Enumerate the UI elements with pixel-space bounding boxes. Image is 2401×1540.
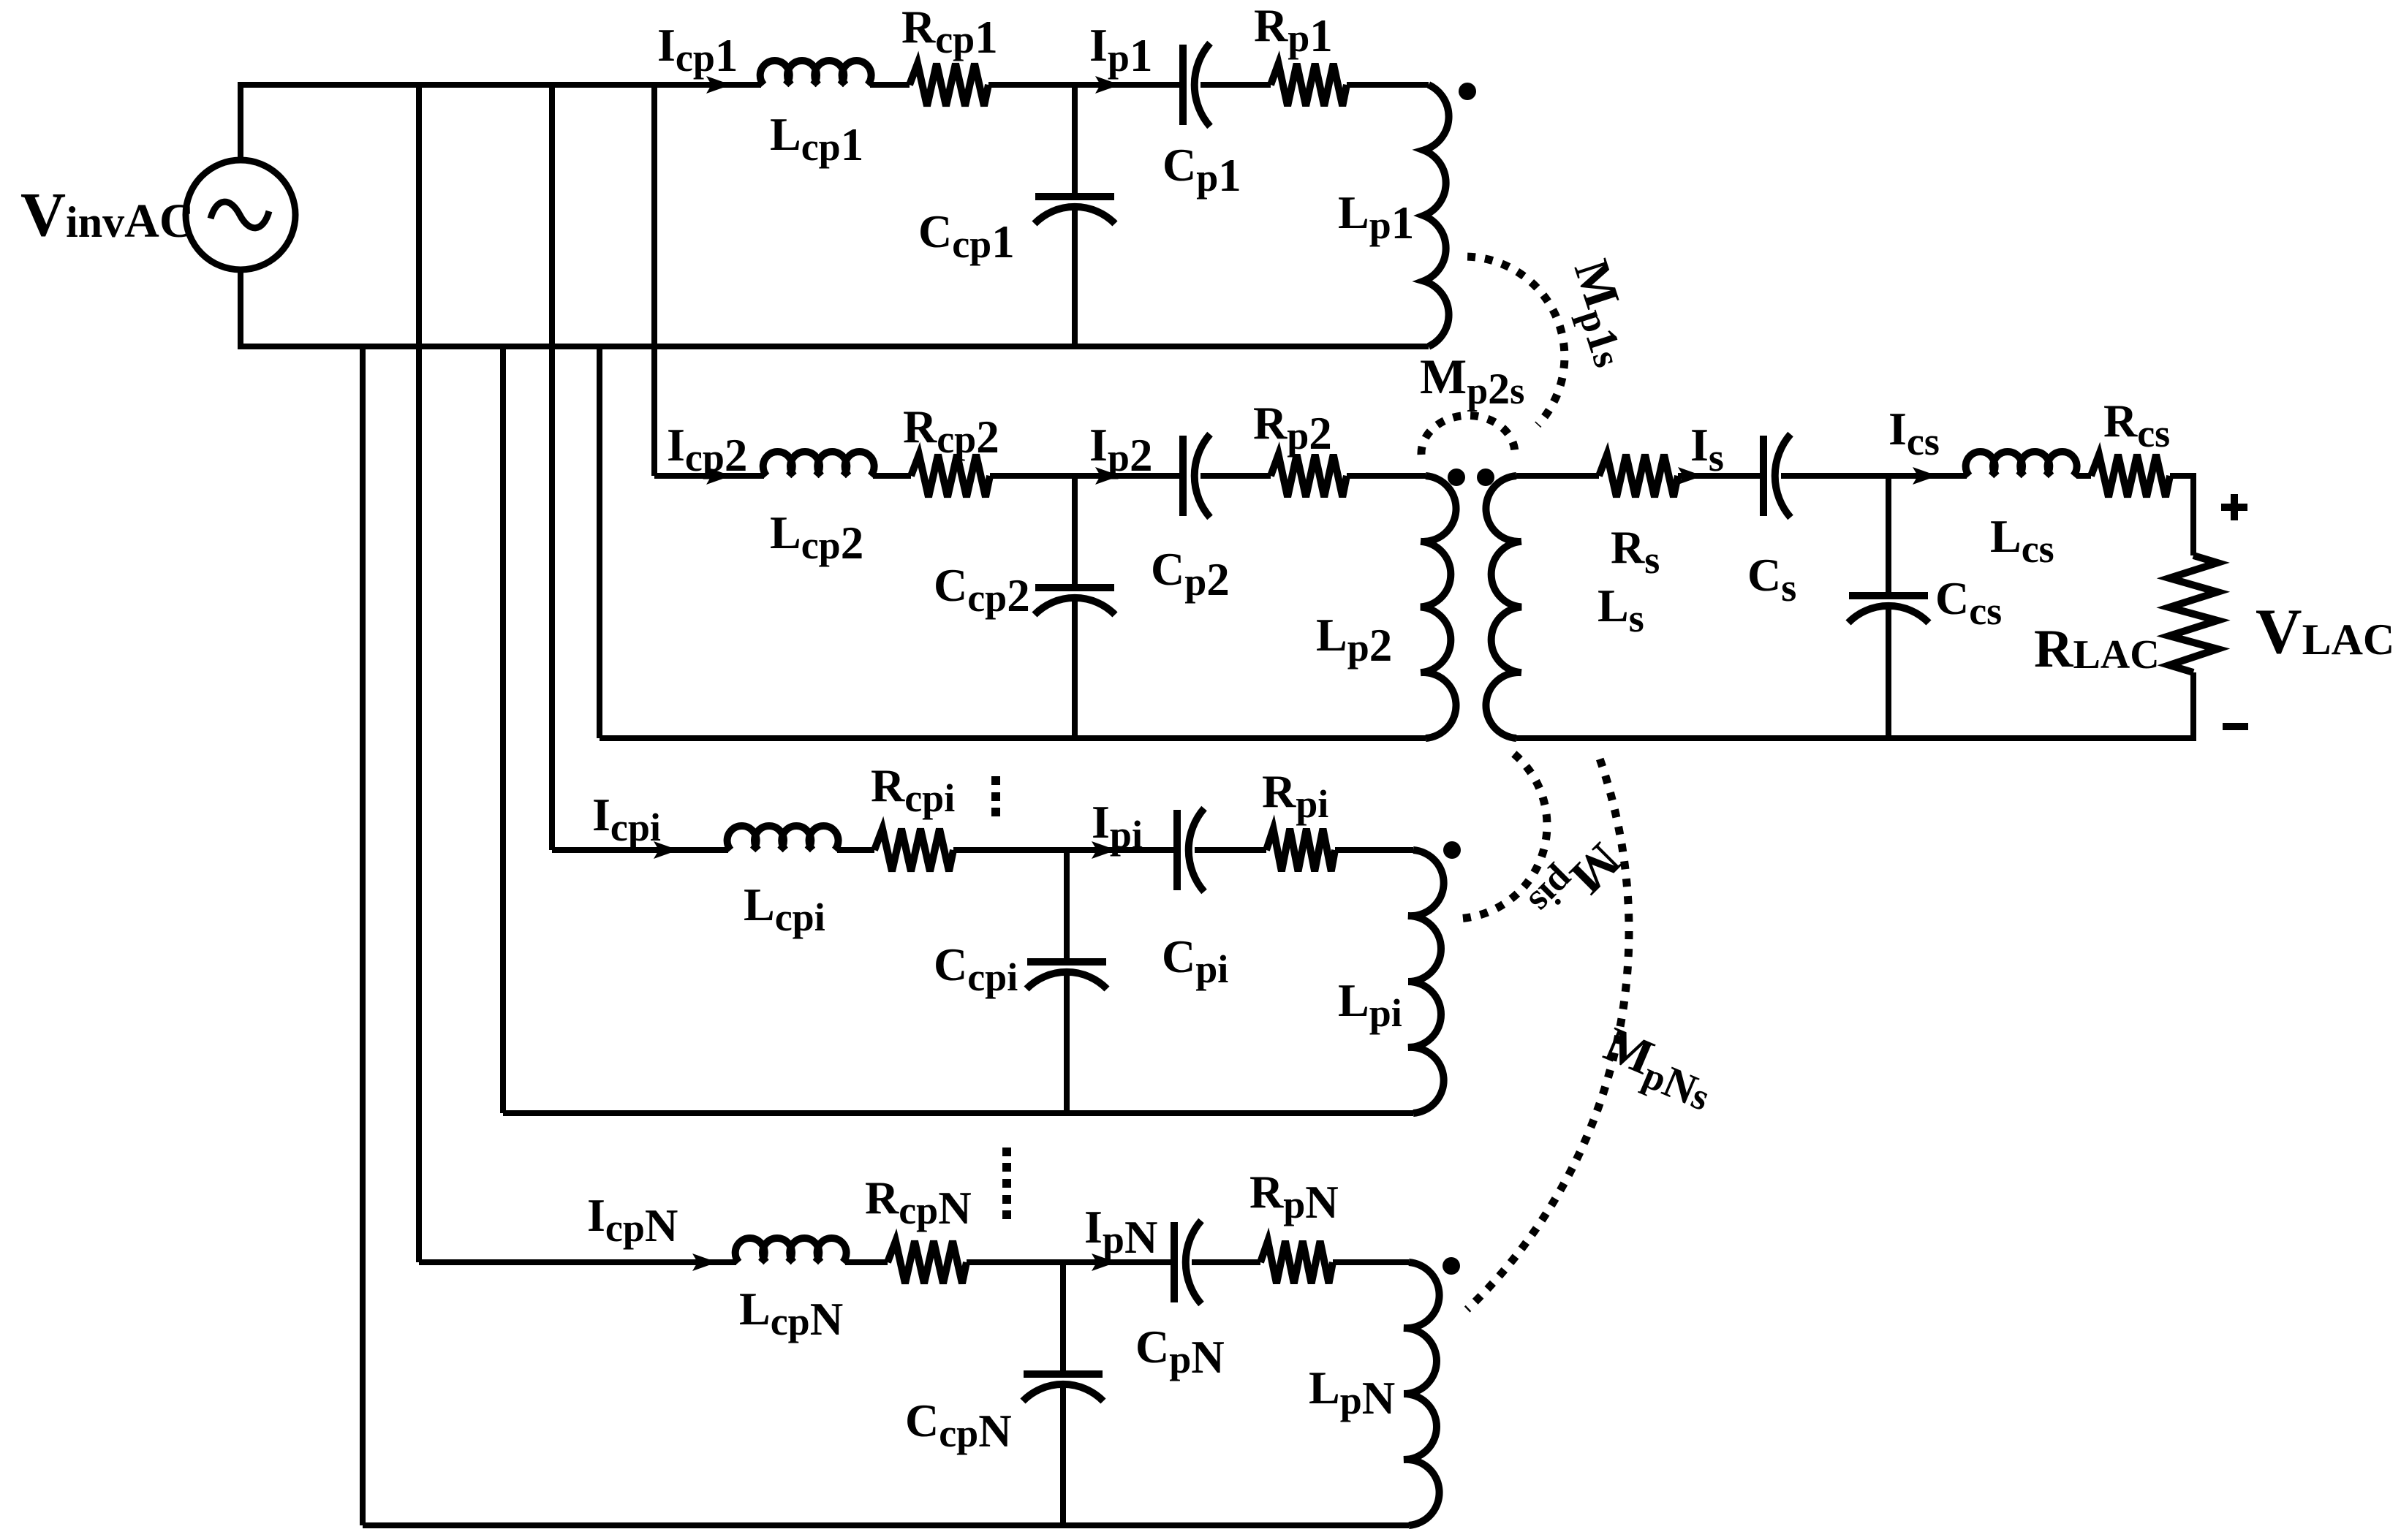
capacitor CcpN (1024, 1370, 1103, 1378)
label plus sign (2221, 494, 2247, 520)
wire branch N feed segment (419, 1259, 736, 1265)
wire branch i return segment (503, 1110, 1413, 1116)
current arrow IpN (1092, 1253, 1116, 1271)
wire Lcs to Rcs (2076, 473, 2091, 479)
resistor Rs (1599, 455, 1678, 497)
inductor Lcs (1966, 452, 2077, 476)
label Mpis (1521, 827, 1632, 938)
wire Rcp1 to node 1 (988, 82, 1183, 88)
resistor Rpi (1266, 829, 1335, 871)
wire node s to Lcs (1888, 473, 1967, 479)
current arrow Ics (1913, 467, 1937, 485)
AC source VinvAC (186, 160, 295, 270)
label minus sign (2223, 723, 2248, 730)
inductor Lcpi (727, 826, 839, 850)
wire source bottom lead (238, 267, 243, 346)
current arrow Icp1 (706, 76, 731, 94)
current arrow Ipi (1092, 841, 1116, 859)
resistor RLAC (2169, 555, 2217, 672)
wire shunt leg lower Ccp1 (1072, 207, 1078, 346)
wire source top lead (238, 85, 243, 163)
wire return riser branch 2 (597, 346, 602, 738)
resistor Rp1 (1271, 64, 1347, 106)
wire shunt leg upper Ccp1 (1072, 85, 1078, 194)
wire Rcp2 to node 2 (990, 473, 1183, 479)
wire top bus (238, 82, 761, 88)
wire feed drop to branch i (549, 85, 555, 850)
polarity dot Lpi (1443, 841, 1461, 859)
inductor LpN coil (1404, 1262, 1440, 1525)
capacitor Ccp1 (1035, 193, 1114, 200)
label MpNs (1593, 1016, 1724, 1120)
wire shunt leg upper Ccpi (1064, 850, 1070, 959)
current arrow Icpi (654, 841, 678, 859)
wire secondary bottom (1516, 735, 2196, 741)
resistor Rcp1 (910, 64, 988, 106)
wire shunt leg upper CcpN (1060, 1262, 1066, 1371)
wire feed drop to branch 2 (651, 85, 657, 476)
inductor LcpN (736, 1238, 847, 1262)
wire RcpN to node N (967, 1259, 1174, 1265)
resistor Rp2 (1271, 455, 1347, 497)
current arrow IcpN (692, 1253, 717, 1271)
mutual coupling arc Mpis (1453, 754, 1547, 919)
inductor Ls coil (1486, 476, 1521, 738)
wire shunt leg upper Ccp2 (1072, 476, 1078, 585)
resistor RpN (1260, 1241, 1333, 1283)
wire RpN to LpN (1333, 1259, 1409, 1265)
wire branch i feed segment (552, 847, 728, 853)
inductor Lpi coil (1408, 850, 1444, 1113)
wire return riser branch i (500, 346, 506, 1113)
resistor RcpN (888, 1241, 967, 1283)
current arrow Ip1 (1095, 76, 1120, 94)
capacitor CpN (1171, 1222, 1178, 1302)
resistor Rcpi (874, 829, 953, 871)
wire Cs to node s (1781, 473, 1888, 479)
wire Lcp2 to Rcp2 (873, 473, 911, 479)
inductor Lcp2 (763, 452, 874, 476)
wire branch 2 feed segment (654, 473, 764, 479)
wire Lcp1 to Rcp1 (870, 82, 910, 88)
wire return bus (238, 344, 1429, 349)
capacitor Ccpi (1027, 958, 1106, 966)
wire Rcs to corner (2170, 473, 2193, 479)
wire Rpi to Lpi (1335, 847, 1413, 853)
wire branch N return segment (363, 1522, 1409, 1528)
mutual coupling arc Mp1s (1467, 257, 1565, 425)
polarity dot Ls (1477, 469, 1494, 486)
current arrow Is (1678, 467, 1703, 485)
wire Cp1 to Rp1 (1200, 82, 1271, 88)
wire load right top (2190, 473, 2196, 555)
ellipsis between branch i and N (1002, 1148, 1011, 1156)
capacitor Cp1 (1179, 45, 1187, 125)
wire feed drop to branch N (416, 85, 422, 1262)
wire shunt leg lower Ccp2 (1072, 598, 1078, 738)
ellipsis between branch 2 and i (991, 776, 1000, 785)
wire LcpN to RcpN (845, 1259, 888, 1265)
inductor Lcp1 (760, 61, 871, 85)
wire Rp1 to Lp1 (1347, 82, 1429, 88)
wire Rp2 to Lp2 (1347, 473, 1426, 479)
wire shunt leg lower CcpN (1060, 1384, 1066, 1525)
wire Rs to Cs (1678, 473, 1763, 479)
wire Ls to Rs (1516, 473, 1599, 479)
wire return riser branch N (360, 346, 366, 1525)
wire load right bottom (2190, 672, 2196, 741)
wire Cp2 to Rp2 (1200, 473, 1271, 479)
wire Ccs shunt lower (1886, 606, 1891, 738)
current arrow Icp2 (706, 467, 731, 485)
resistor Rcp2 (911, 455, 990, 497)
capacitor Cs (1760, 436, 1767, 516)
wire branch 2 return segment (600, 735, 1426, 741)
capacitor Ccp2 (1035, 584, 1114, 591)
capacitor Cp2 (1179, 436, 1187, 516)
mutual coupling arc Mp2s (1421, 415, 1515, 455)
wire Rcpi to node i (953, 847, 1177, 853)
inductor Lp1 coil (1423, 85, 1449, 346)
wire Lcpi to Rcpi (837, 847, 874, 853)
polarity dot LpN (1443, 1257, 1460, 1275)
polarity dot Lp2 (1448, 469, 1465, 486)
wire shunt leg lower Ccpi (1064, 972, 1070, 1113)
wire Cpi to Rpi (1195, 847, 1266, 853)
mutual coupling arc MpNs (1467, 759, 1629, 1310)
wire Ccs shunt upper (1886, 476, 1891, 593)
polarity dot Lp1 (1459, 83, 1476, 100)
current arrow Ip2 (1095, 467, 1120, 485)
resistor Rcs (2091, 455, 2170, 497)
wire CpN to RpN (1192, 1259, 1260, 1265)
label Mp1s (1555, 253, 1649, 373)
capacitor Ccs (1849, 592, 1928, 599)
capacitor Cpi (1173, 810, 1181, 890)
inductor Lp2 coil (1421, 476, 1456, 738)
